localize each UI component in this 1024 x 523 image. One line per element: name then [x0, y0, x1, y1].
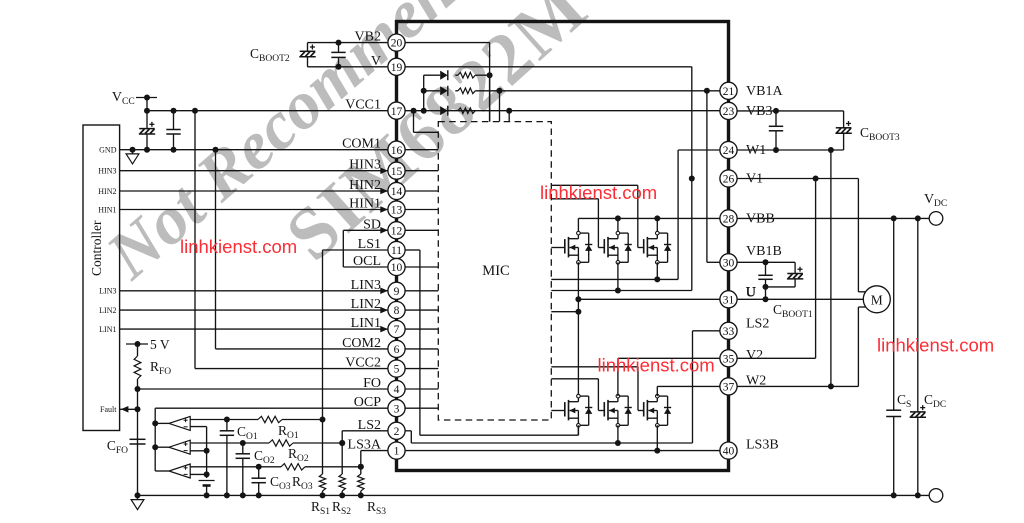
svg-text:7: 7 — [394, 324, 400, 336]
svg-text:5 V: 5 V — [150, 337, 170, 352]
svg-text:U: U — [746, 286, 756, 301]
svg-text:1: 1 — [394, 446, 400, 458]
wire gate feed Q6 — [551, 366, 638, 368]
wire LIN1 — [120, 328, 388, 330]
svg-text:VB2: VB2 — [355, 30, 381, 45]
diode D1 — [440, 71, 447, 80]
wire COM2 branch — [215, 150, 217, 349]
wire V left — [308, 66, 388, 68]
svg-text:35: 35 — [723, 353, 735, 365]
wire row2 into MIC — [499, 91, 501, 122]
svg-text:OCP: OCP — [354, 395, 381, 410]
wire V1 external — [737, 178, 858, 180]
wire pin11 to M1p source — [405, 249, 420, 251]
svg-text:11: 11 — [391, 245, 402, 257]
ground rail — [138, 494, 930, 496]
svg-text:3: 3 — [394, 403, 400, 415]
svg-text:linhkienst.com: linhkienst.com — [180, 236, 297, 257]
wire V internal pin19 — [405, 66, 692, 68]
pin 37 — [720, 378, 737, 395]
capacitor CBOOT3 ceramic — [775, 111, 777, 126]
capacitor CBOOT1 electrolytic — [794, 262, 796, 273]
svg-text:LS3A: LS3A — [348, 438, 382, 453]
pin 31 — [720, 291, 737, 308]
svg-text:9: 9 — [394, 286, 400, 298]
svg-text:HIN2: HIN2 — [349, 178, 381, 193]
pin 1 — [388, 442, 405, 459]
wire LS3A left — [361, 450, 388, 452]
pin 15 — [388, 162, 405, 179]
pin 6 — [388, 340, 405, 357]
svg-text:16: 16 — [391, 145, 403, 157]
wire U into MIC — [551, 311, 578, 313]
svg-text:HIN1: HIN1 — [349, 197, 381, 212]
svg-text:HIN2: HIN2 — [98, 187, 116, 196]
wire row1 into MIC — [489, 75, 491, 121]
capacitor CBOOT1 ceramic — [765, 262, 767, 275]
svg-text:14: 14 — [391, 186, 403, 198]
svg-text:24: 24 — [723, 145, 735, 157]
wire U-phase vertical — [577, 262, 579, 396]
wire U external — [737, 298, 863, 300]
svg-text:13: 13 — [391, 205, 403, 217]
svg-text:LS1: LS1 — [358, 237, 381, 252]
svg-text:40: 40 — [723, 446, 735, 458]
wire pin10 stub — [405, 266, 438, 268]
capacitor CO2 — [242, 443, 244, 454]
wire pin8 stub — [405, 309, 438, 311]
svg-text:FO: FO — [363, 376, 381, 391]
svg-text:2: 2 — [394, 426, 400, 438]
controller box — [83, 125, 120, 431]
wire VBB external — [737, 217, 929, 219]
wire gate feed Q5 — [551, 378, 598, 380]
svg-text:LIN3: LIN3 — [99, 287, 116, 296]
MIC block — [438, 122, 551, 420]
capacitor CBOOT2 ceramic — [338, 43, 340, 53]
pin 9 — [388, 282, 405, 299]
wire W-phase source line — [551, 278, 678, 280]
wire comp2 plus / RO2 line — [190, 442, 269, 444]
svg-text:Fault: Fault — [100, 405, 117, 414]
wire vcc down — [146, 98, 148, 111]
wire VBB internal — [578, 217, 720, 219]
svg-text:CC: CC — [122, 97, 135, 107]
wire pin2 internal — [405, 430, 411, 432]
transistor Q1 high-side U — [564, 239, 566, 253]
svg-text:37: 37 — [723, 382, 735, 394]
node return terminal — [929, 489, 943, 503]
wire LS1 left — [323, 249, 388, 251]
transistor Q3 high-side W — [643, 239, 645, 253]
wire gate feed Q1 — [551, 247, 565, 249]
svg-text:21: 21 — [723, 86, 735, 98]
svg-text:20: 20 — [391, 38, 403, 50]
svg-text:LIN1: LIN1 — [99, 325, 116, 334]
wire pin6 stub — [405, 348, 438, 350]
resistor row1 — [458, 72, 475, 78]
svg-text:19: 19 — [391, 62, 403, 74]
wire pin3 stub — [405, 407, 438, 409]
transistor Q2 high-side V — [603, 239, 605, 253]
svg-text:V: V — [924, 192, 934, 207]
wire VB3 external — [737, 110, 844, 112]
node VDC terminal — [929, 212, 943, 226]
svg-text:linhkienst.com: linhkienst.com — [877, 335, 994, 356]
wire FO row — [135, 386, 141, 392]
node 5V terminal — [126, 343, 148, 345]
pin 3 — [388, 400, 405, 417]
pin 23 — [720, 102, 737, 119]
wire pin4 stub — [405, 388, 438, 390]
wire V2 external — [737, 357, 816, 359]
wire LS2 left — [342, 430, 388, 432]
svg-text:V: V — [112, 90, 122, 105]
wire W1 riser — [677, 150, 679, 279]
wire M3 drain — [656, 218, 658, 233]
wire VCC bus — [147, 110, 388, 112]
svg-text:DC: DC — [934, 199, 947, 209]
svg-text:M: M — [871, 292, 883, 307]
pin 33 — [720, 322, 737, 339]
wire row2 — [424, 90, 441, 92]
wire pin7 stub — [405, 328, 438, 330]
wire W to motor — [857, 307, 859, 386]
pin 28 — [720, 210, 737, 227]
svg-text:COM2: COM2 — [342, 336, 381, 351]
capacitor ceramic on VCC — [173, 111, 175, 130]
svg-text:10: 10 — [391, 262, 403, 274]
wire W1-W2 vertical — [830, 150, 832, 386]
capacitor CS — [893, 218, 895, 410]
svg-text:LS2: LS2 — [746, 317, 769, 332]
pin 30 — [720, 254, 737, 271]
wire LIN3 — [120, 290, 388, 292]
svg-text:COM1: COM1 — [342, 137, 381, 152]
wire diode anode bus — [423, 75, 425, 111]
wire comp2 minus — [190, 450, 206, 452]
resistor row2 — [458, 88, 475, 94]
pin 26 — [720, 170, 737, 187]
svg-text:V2: V2 — [746, 348, 763, 363]
svg-text:GND: GND — [99, 146, 117, 155]
svg-text:HIN3: HIN3 — [349, 158, 381, 173]
svg-text:LIN3: LIN3 — [351, 278, 381, 293]
wire row1 — [424, 74, 441, 76]
wire GND COM1 line — [120, 149, 388, 151]
resistor row3 — [458, 108, 475, 114]
wire SD-OCL tie — [342, 230, 344, 267]
transistor Q5 low-side V — [603, 402, 605, 416]
wire VB1B internal — [706, 91, 708, 262]
capacitor CDC electrolytic — [917, 218, 919, 412]
wire V to motor — [857, 179, 859, 292]
wire Q6 source down — [656, 425, 658, 450]
pin 24 — [720, 141, 737, 158]
wire comp3 plus / RO3 line — [190, 466, 281, 468]
op-amp comparator 3 — [169, 464, 190, 478]
wire comp3 minus — [190, 473, 206, 475]
resistor RS3 — [360, 451, 362, 474]
svg-text:Controller: Controller — [89, 220, 104, 276]
wire VCC1 row3 — [405, 110, 720, 112]
pin 35 — [720, 350, 737, 367]
wire U internal — [578, 298, 720, 300]
ground symbol bottom — [137, 495, 139, 499]
svg-text:31: 31 — [723, 294, 735, 306]
wire Fault row — [120, 408, 138, 410]
capacitor CFO — [130, 438, 146, 440]
svg-text:8: 8 — [394, 305, 400, 317]
pin 17 — [388, 102, 405, 119]
ground symbol at controller — [132, 150, 134, 154]
svg-text:VB1B: VB1B — [746, 244, 782, 259]
battery reference — [199, 480, 215, 482]
wire LIN2 — [120, 309, 388, 311]
wire row3 into MIC — [508, 111, 510, 122]
wire pin1 to pin40 — [405, 450, 720, 452]
wire comp outputs — [155, 422, 169, 424]
wire OCP rail — [155, 407, 388, 409]
IC body outline — [397, 22, 729, 471]
pin 20 — [388, 34, 405, 51]
pin 14 — [388, 182, 405, 199]
wire W2 internal — [657, 385, 720, 387]
capacitor CBOOT3 electrolytic — [843, 111, 845, 128]
svg-text:33: 33 — [723, 326, 735, 338]
wire M2 drain — [617, 218, 619, 233]
motor M — [863, 286, 890, 313]
svg-text:15: 15 — [391, 166, 403, 178]
wire pin15 stub — [405, 170, 438, 172]
pin 10 — [388, 258, 405, 275]
svg-text:OCL: OCL — [353, 254, 381, 269]
wire comp1 minus — [190, 426, 206, 428]
svg-text:5: 5 — [394, 364, 400, 376]
svg-text:LIN1: LIN1 — [351, 316, 381, 331]
svg-text:LIN2: LIN2 — [99, 306, 116, 315]
resistor RFO — [137, 344, 139, 356]
op-amp comparator 1 — [169, 416, 190, 430]
svg-text:SD: SD — [363, 217, 381, 232]
wire pin12 stub — [405, 229, 438, 231]
wire pin9 stub — [405, 290, 438, 292]
wire V2 internal — [618, 357, 720, 359]
wire gate feed Q4 — [551, 410, 565, 412]
wire VB2 left — [308, 42, 388, 44]
svg-text:LIN2: LIN2 — [351, 297, 381, 312]
capacitor electrolytic on VCC — [146, 111, 148, 129]
pin 8 — [388, 302, 405, 319]
wire gate feed Q3 — [551, 184, 638, 186]
diode D3 — [440, 106, 447, 115]
wire pin13 stub — [405, 209, 438, 211]
svg-text:VB1A: VB1A — [746, 84, 783, 99]
capacitor CBOOT2 electrolytic — [307, 43, 309, 52]
pin 5 — [388, 360, 405, 377]
svg-text:LS3B: LS3B — [746, 438, 779, 453]
resistor RS1 — [322, 420, 324, 475]
pin 4 — [388, 380, 405, 397]
svg-text:HIN3: HIN3 — [98, 167, 116, 176]
resistor RS2 — [341, 431, 343, 474]
svg-text:MIC: MIC — [482, 263, 509, 279]
wire OCL — [343, 266, 388, 268]
wire VCC1 into MIC — [413, 111, 415, 133]
svg-text:12: 12 — [391, 225, 403, 237]
wire SD — [343, 229, 388, 231]
svg-text:HIN1: HIN1 — [98, 205, 116, 214]
pin 16 — [388, 141, 405, 158]
wire HIN2 — [120, 190, 388, 192]
transistor Q6 low-side W — [643, 402, 645, 416]
op-amp comparator 2 — [169, 440, 190, 454]
svg-text:LS2: LS2 — [358, 418, 381, 433]
wire V1-V2 vertical — [815, 179, 817, 359]
pin 7 — [388, 321, 405, 338]
capacitor CO3 — [258, 467, 260, 478]
wire VB1B external — [737, 261, 795, 263]
wire HIN3 — [120, 170, 388, 172]
svg-text:V: V — [371, 54, 381, 69]
svg-text:28: 28 — [723, 214, 735, 226]
pin 19 — [388, 58, 405, 75]
svg-text:linhkienst.com: linhkienst.com — [598, 355, 715, 376]
wire pin14 stub — [405, 190, 438, 192]
svg-text:VCC2: VCC2 — [345, 356, 381, 371]
wire VCC2 branch — [194, 111, 196, 369]
svg-text:4: 4 — [394, 384, 400, 396]
pin 21 — [720, 82, 737, 99]
wire comp1 plus / RO1 line — [190, 419, 258, 421]
pin 2 — [388, 422, 405, 439]
pin 40 — [720, 442, 737, 459]
transistor Q4 low-side U — [564, 402, 566, 416]
svg-text:17: 17 — [391, 106, 403, 118]
svg-text:30: 30 — [723, 257, 735, 269]
pin 12 — [388, 222, 405, 239]
svg-text:26: 26 — [723, 174, 735, 186]
wire VB2 internal — [405, 42, 490, 44]
wire W2 external — [737, 385, 858, 387]
pin 13 — [388, 201, 405, 218]
pin 11 — [388, 241, 405, 258]
wire V-phase source line — [551, 290, 692, 292]
wire Q4 source down — [577, 425, 579, 435]
wire W1 external — [737, 149, 844, 151]
svg-text:6: 6 — [394, 344, 400, 356]
wire gate feed Q2 — [551, 198, 598, 200]
wire pin33 internal — [693, 330, 720, 332]
svg-text:23: 23 — [723, 106, 735, 118]
wire pin5 stub — [405, 368, 438, 370]
wire Q5 source down — [617, 425, 619, 443]
diode D2 — [440, 86, 447, 95]
wire HIN1 — [120, 209, 388, 211]
svg-text:linhkienst.com: linhkienst.com — [540, 182, 657, 203]
svg-text:VCC1: VCC1 — [345, 98, 381, 113]
capacitor CO1 — [226, 420, 228, 431]
wire pin16 stub — [405, 149, 438, 151]
